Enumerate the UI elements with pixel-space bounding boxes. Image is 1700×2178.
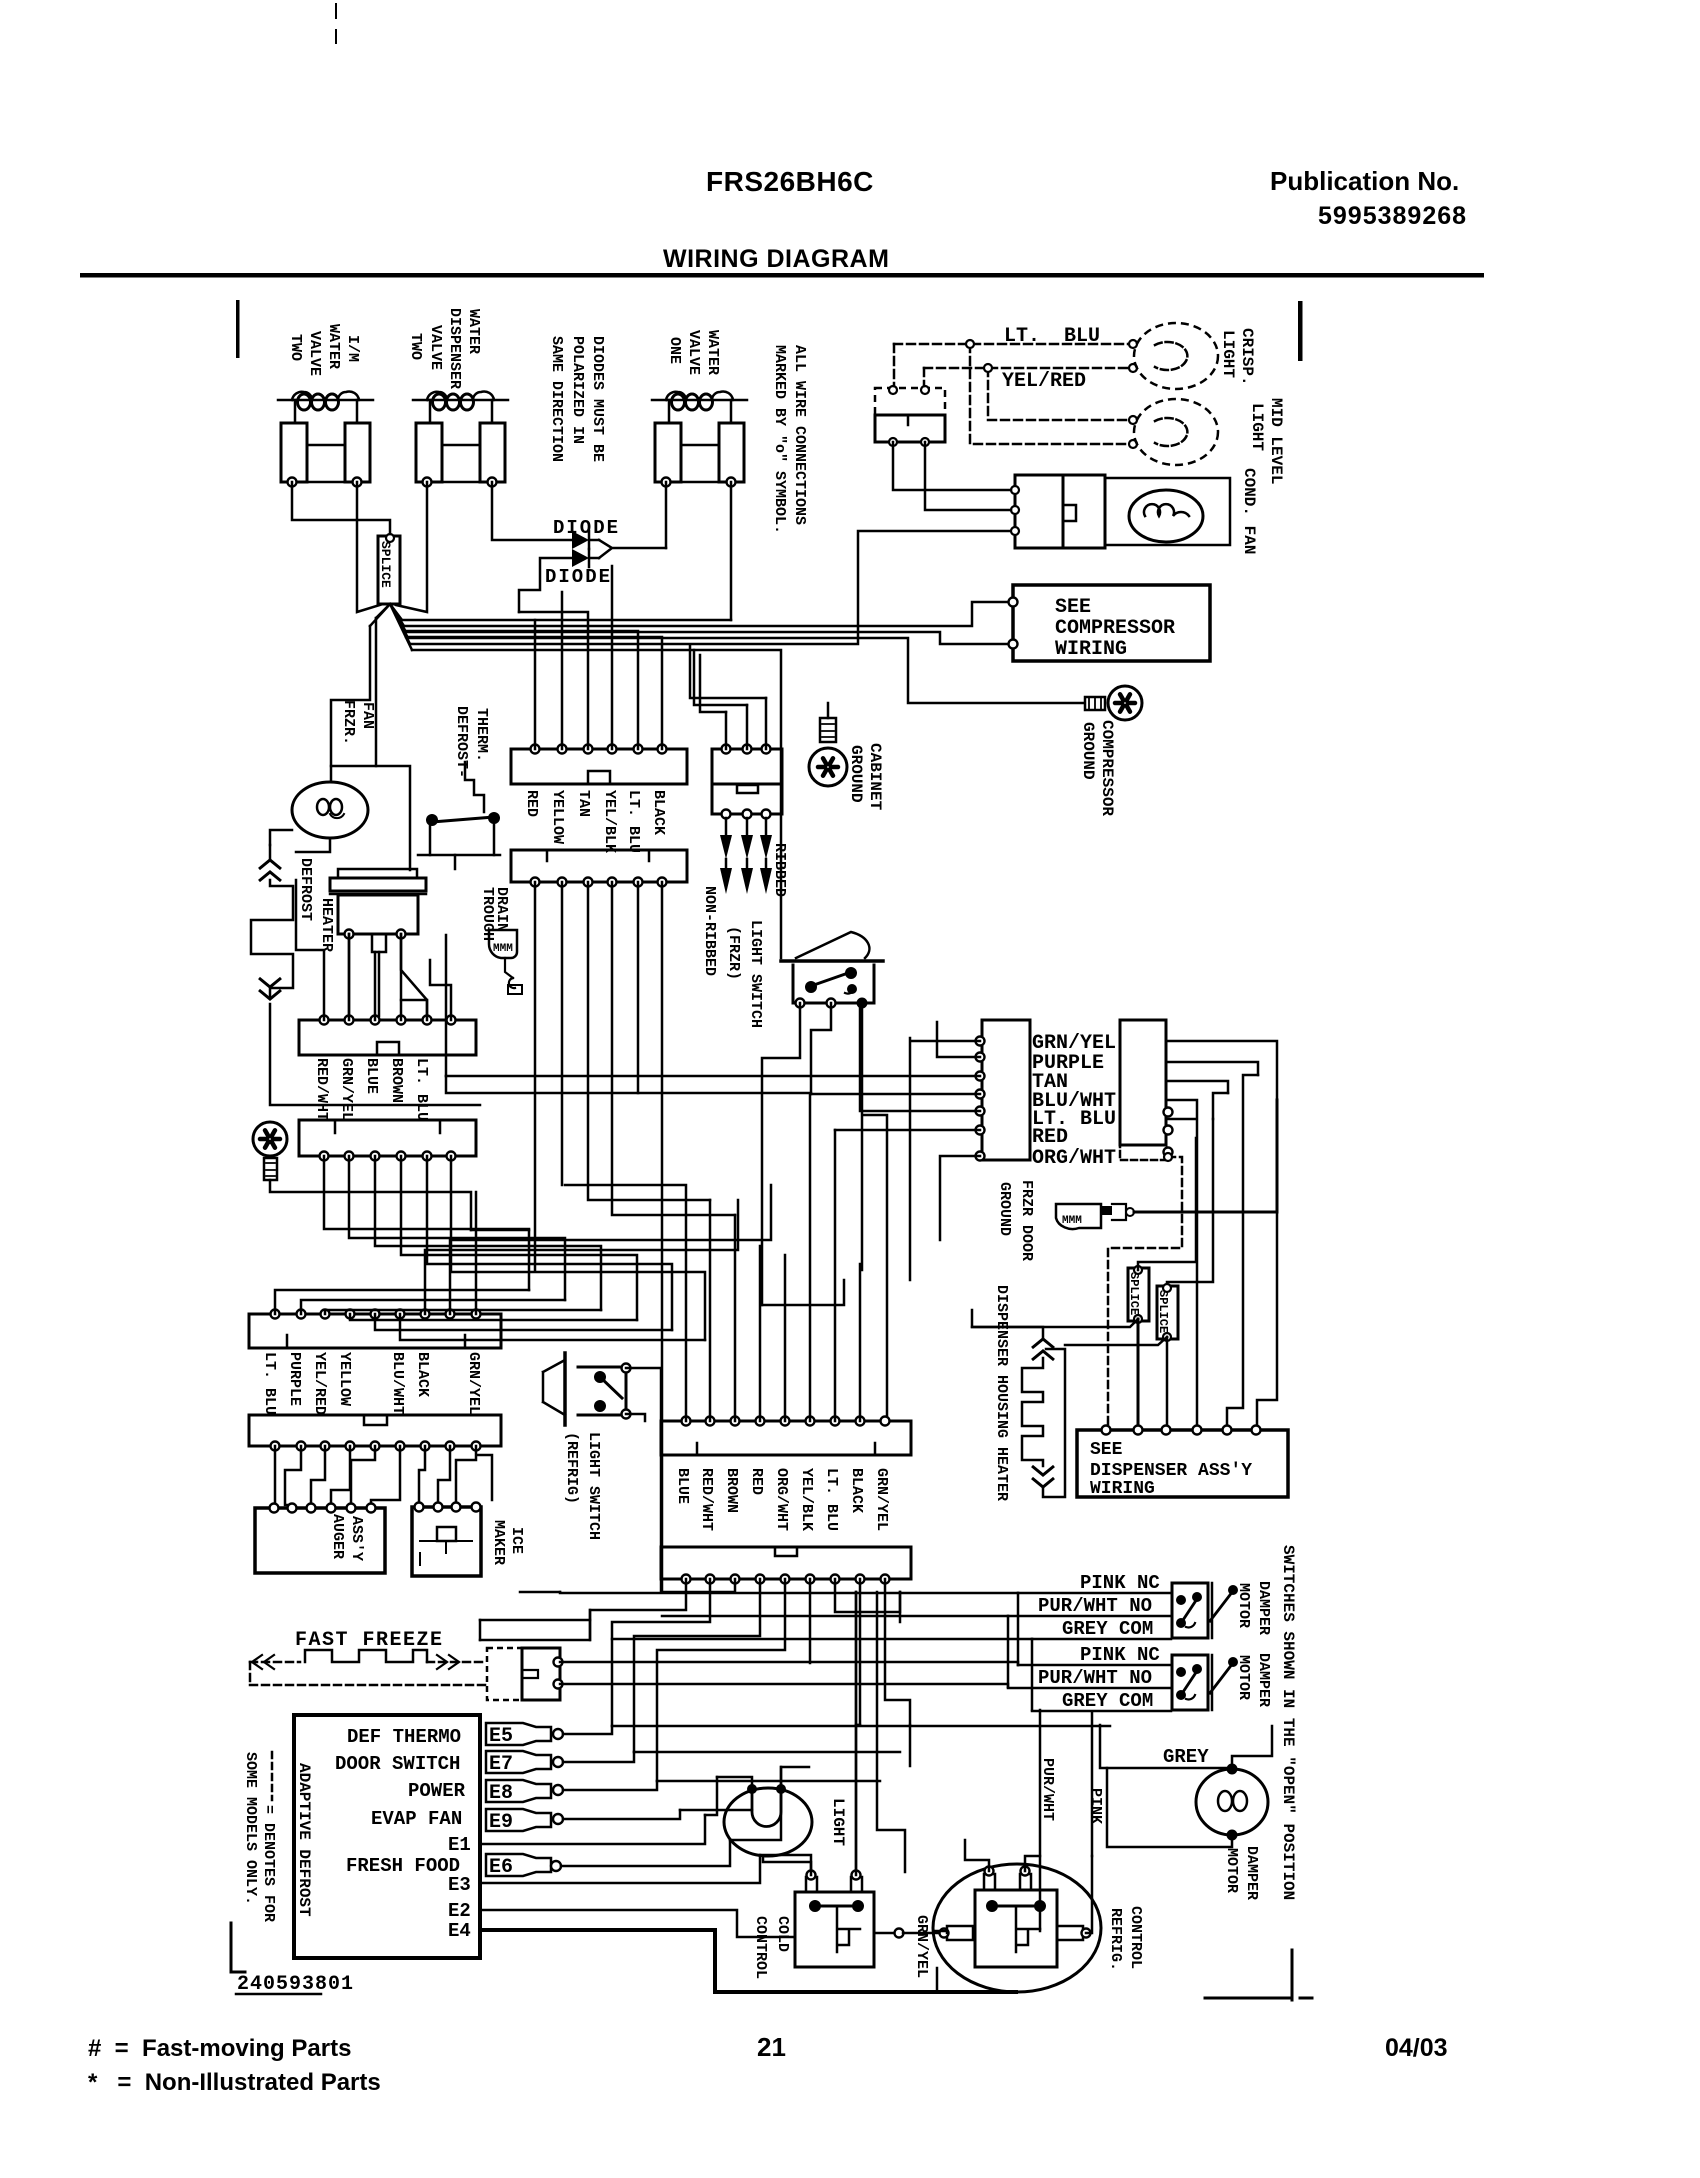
svg-text:MAKER: MAKER	[490, 1520, 507, 1565]
svg-text:YEL/RED: YEL/RED	[1002, 370, 1086, 393]
damper switch lower motor lead	[1210, 1663, 1233, 1693]
wire frzr door ground dashed	[1108, 1157, 1182, 1426]
wire crisp to mid dashed 1	[970, 344, 1131, 444]
compressor ground symbol	[1108, 686, 1142, 720]
svg-text:GROUND: GROUND	[847, 745, 865, 803]
svg-text:SPLICE: SPLICE	[1127, 1272, 1141, 1315]
svg-text:ALL WIRE CONNECTIONS: ALL WIRE CONNECTIONS	[791, 345, 808, 525]
svg-text:CONTROL: CONTROL	[752, 1916, 769, 1979]
refrig control ellipse	[933, 1864, 1101, 1992]
wire grn/yel vertical	[935, 1931, 947, 1933]
svg-text:COMPRESSOR: COMPRESSOR	[1055, 617, 1175, 640]
wire bundle line2 to compressor pin1	[404, 602, 1009, 626]
svg-text:RED: RED	[748, 1468, 765, 1495]
svg-text:DEFROST: DEFROST	[297, 858, 314, 921]
svg-text:WATER: WATER	[704, 330, 721, 375]
svg-text:ORG/WHT: ORG/WHT	[773, 1468, 790, 1531]
svg-text:DEFROST-: DEFROST-	[453, 706, 470, 778]
svg-text:E9: E9	[489, 1811, 513, 1834]
svg-text:E4: E4	[448, 1920, 471, 1942]
defrost timer assembly	[338, 869, 417, 878]
svg-text:DAMPER: DAMPER	[1243, 1846, 1260, 1900]
svg-text:MID LEVEL: MID LEVEL	[1267, 398, 1285, 484]
wire bundle line1	[402, 619, 731, 622]
svg-text:CABINET: CABINET	[866, 743, 884, 811]
svg-text:LIGHT: LIGHT	[829, 1798, 847, 1846]
wire maze center horizontals	[445, 935, 448, 1076]
wire splice S2 bottom to dispenser	[1137, 1319, 1140, 1426]
wires J1 pins up	[534, 620, 537, 749]
diode merge arrow	[599, 540, 666, 558]
wires cold control	[763, 1856, 811, 1875]
svg-text:BLACK: BLACK	[650, 790, 667, 835]
wires fast freeze out	[560, 1662, 1018, 1665]
wire maze center verticals	[855, 1592, 858, 1875]
cold control box	[795, 1892, 874, 1967]
svg-text:LT. BLU: LT. BLU	[261, 1352, 278, 1415]
svg-text:MOTOR: MOTOR	[1223, 1848, 1240, 1893]
wires J11 pins down maze	[480, 1579, 686, 1640]
connector J11	[661, 1547, 911, 1579]
wire door switch to fan connector 1	[893, 442, 1011, 490]
terminal E6	[486, 1854, 551, 1876]
wire bundle line6 long drop	[412, 650, 781, 958]
wire valveA left to splice top	[292, 482, 390, 534]
terminal E9	[486, 1809, 551, 1831]
wires J7 pins down maze	[324, 1156, 529, 1290]
svg-text:TAN: TAN	[575, 790, 592, 817]
svg-text:NON-RIBBED: NON-RIBBED	[701, 886, 718, 976]
wires E terminals	[563, 1726, 612, 1734]
svg-text:CRISP.: CRISP.	[1238, 328, 1256, 386]
footer corner mark right	[1205, 1950, 1312, 2000]
svg-text:5995389268: 5995389268	[1318, 202, 1467, 230]
auger assy box	[255, 1508, 385, 1573]
svg-text:240593801: 240593801	[237, 1973, 354, 1996]
connector J5 right	[1120, 1020, 1166, 1145]
svg-text:HEATER: HEATER	[318, 898, 335, 952]
damper switch upper motor lead	[1210, 1591, 1233, 1621]
damper switch upper wires	[1018, 1592, 1171, 1595]
defrost heater	[269, 845, 272, 860]
svg-text:FRZR DOOR: FRZR DOOR	[1018, 1180, 1035, 1261]
wires J2 pins down	[534, 882, 537, 1270]
svg-text:LT. BLU: LT. BLU	[625, 790, 642, 853]
svg-text:RED/WHT: RED/WHT	[698, 1468, 715, 1531]
ice maker box	[412, 1507, 481, 1576]
svg-text:SOME MODELS ONLY.: SOME MODELS ONLY.	[242, 1752, 259, 1905]
svg-text:BLU/WHT: BLU/WHT	[389, 1352, 406, 1415]
wire valveB left down	[396, 482, 427, 612]
wire valveA right to splice fan	[357, 482, 383, 612]
svg-text:YEL/BLK: YEL/BLK	[601, 790, 618, 853]
wires light switch refrig	[626, 1368, 661, 1592]
wire diode2 feed	[519, 558, 571, 612]
terminal E8	[486, 1780, 551, 1802]
svg-text:(REFRIG): (REFRIG)	[563, 1432, 580, 1504]
svg-text:COND. FAN: COND. FAN	[1240, 468, 1258, 554]
svg-text:POLARIZED IN: POLARIZED IN	[569, 336, 586, 444]
svg-text:GREY COM: GREY COM	[1062, 1690, 1153, 1712]
connector J8	[249, 1314, 501, 1348]
wire crisp to mid dashed 2	[988, 368, 1131, 420]
crisp light bulb	[1134, 323, 1218, 389]
svg-text:ADAPTIVE DEFROST: ADAPTIVE DEFROST	[295, 1763, 313, 1917]
svg-text:WATER: WATER	[465, 309, 482, 354]
damper feed verticals	[1008, 1593, 1032, 1710]
svg-text:VALVE: VALVE	[306, 331, 323, 376]
svg-text:VALVE: VALVE	[685, 330, 702, 375]
cond fan frame	[1105, 478, 1230, 545]
svg-text:I/M: I/M	[344, 335, 361, 362]
wire splice left drop B	[331, 626, 370, 766]
wires timer to connector	[348, 934, 351, 1016]
svg-text:GRN/YEL: GRN/YEL	[913, 1915, 930, 1978]
svg-text:WIRING DIAGRAM: WIRING DIAGRAM	[663, 245, 889, 273]
legend DENOTES FOR SOME MODELS ONLY	[271, 1752, 274, 1800]
freezer door switch body	[875, 415, 945, 442]
svg-text:WIRING: WIRING	[1090, 1479, 1155, 1499]
svg-text:TWO: TWO	[407, 333, 424, 360]
wire heater top to fan	[270, 830, 292, 845]
svg-text:ICE: ICE	[508, 1527, 525, 1554]
fast freeze dashed resistor	[250, 1661, 300, 1664]
connector J7	[299, 1120, 476, 1156]
svg-text:LT. BLU: LT. BLU	[823, 1468, 840, 1531]
wire bundle line4 ground bus	[408, 638, 1083, 703]
wires J10 pins up maze	[565, 1185, 686, 1421]
connector J6	[299, 1020, 476, 1055]
adaptive defrost board box	[294, 1715, 480, 1958]
fast freeze connector	[487, 1648, 522, 1700]
svg-text:FRS26BH6C: FRS26BH6C	[706, 166, 874, 197]
svg-text:GRN/YEL: GRN/YEL	[873, 1468, 890, 1531]
svg-text:LIGHT: LIGHT	[1248, 403, 1266, 451]
svg-text:FRZR.: FRZR.	[340, 700, 357, 745]
diode D2	[572, 549, 589, 567]
svg-text:VALVE: VALVE	[427, 325, 444, 370]
svg-text:E7: E7	[489, 1753, 513, 1776]
svg-text:YELLOW: YELLOW	[336, 1352, 353, 1406]
freezer fan motor	[292, 782, 368, 838]
wire splice S2 top	[1138, 1138, 1196, 1270]
svg-text:BLUE: BLUE	[674, 1468, 691, 1504]
svg-text:BROWN: BROWN	[723, 1468, 740, 1513]
wires J8 pins up	[275, 1290, 529, 1314]
svg-text:MOTOR: MOTOR	[1235, 1655, 1252, 1700]
svg-text:SEE: SEE	[1090, 1440, 1123, 1460]
svg-text:SPLICE: SPLICE	[378, 541, 393, 588]
connector J9	[249, 1415, 501, 1446]
svg-text:SEE: SEE	[1055, 596, 1091, 619]
wire door switch to fan connector 2	[925, 442, 1011, 510]
defrost thermostat switch	[426, 814, 438, 826]
svg-text:PINK: PINK	[1087, 1788, 1104, 1824]
see dispenser assy wiring box	[1077, 1430, 1288, 1497]
svg-text:TWO: TWO	[287, 334, 304, 361]
svg-text:DIODE: DIODE	[545, 566, 612, 588]
damper switch lower body	[1172, 1655, 1208, 1710]
svg-text:PINK NC: PINK NC	[1080, 1644, 1160, 1666]
svg-text:ONE: ONE	[666, 337, 683, 364]
svg-text:RIBBED: RIBBED	[771, 843, 788, 897]
svg-text:YELLOW: YELLOW	[549, 790, 566, 844]
wire grey	[1100, 1725, 1232, 1768]
svg-text:FRESH FOOD: FRESH FOOD	[346, 1855, 460, 1877]
svg-text:GROUND: GROUND	[1079, 722, 1097, 780]
wire maze bottom left	[480, 1610, 590, 1640]
svg-text:LIGHT SWITCH: LIGHT SWITCH	[585, 1432, 602, 1540]
svg-text:04/03: 04/03	[1385, 2034, 1448, 2062]
right border tick	[1298, 301, 1303, 361]
svg-text:PURPLE: PURPLE	[286, 1352, 303, 1406]
svg-text:E6: E6	[489, 1856, 513, 1879]
svg-text:GRN/YEL: GRN/YEL	[338, 1058, 355, 1121]
svg-text:THERM.: THERM.	[473, 708, 490, 762]
svg-text:DAMPER: DAMPER	[1255, 1653, 1272, 1707]
svg-text:EVAP FAN: EVAP FAN	[371, 1808, 462, 1830]
svg-text:WATER: WATER	[325, 324, 342, 369]
wire YEL/RED dashed	[924, 367, 1131, 370]
wire splice left drop A	[375, 618, 378, 766]
svg-text:DISPENSER ASS'Y: DISPENSER ASS'Y	[1090, 1461, 1252, 1481]
svg-text:FAN: FAN	[359, 702, 376, 729]
defrost thermostat staircase	[465, 762, 484, 812]
wires pur/wht pink down	[1040, 1710, 1092, 1931]
valve WATER VALVE ONE	[652, 399, 747, 402]
svg-text:= DENOTES FOR: = DENOTES FOR	[260, 1805, 277, 1922]
svg-text:PUR/WHT NO: PUR/WHT NO	[1038, 1595, 1152, 1617]
wires refrig control top	[965, 1840, 1040, 1871]
svg-text:POWER: POWER	[408, 1780, 466, 1802]
svg-text:GREY: GREY	[1163, 1746, 1209, 1768]
svg-text:BLACK: BLACK	[414, 1352, 431, 1397]
svg-text:DIODES MUST BE: DIODES MUST BE	[589, 336, 606, 462]
svg-text:BLACK: BLACK	[848, 1468, 865, 1513]
wires J3 pins up	[726, 698, 766, 749]
damper motor	[1196, 1769, 1268, 1835]
wire cabinet ground drop	[827, 703, 830, 718]
wires J5 to right margin staircase	[1166, 1041, 1277, 1426]
svg-text:SPLICE: SPLICE	[1156, 1290, 1170, 1333]
wires refrig light	[717, 1767, 809, 1789]
svg-text:DAMPER: DAMPER	[1255, 1581, 1272, 1635]
svg-text:E8: E8	[489, 1782, 513, 1805]
svg-text:DEF THERMO: DEF THERMO	[347, 1726, 461, 1748]
left border tick	[236, 300, 240, 358]
svg-text:DOOR SWITCH: DOOR SWITCH	[335, 1753, 460, 1775]
svg-text:LT. BLU: LT. BLU	[1004, 325, 1100, 348]
light switch refrig	[563, 1353, 567, 1425]
wire fan loop top	[331, 766, 410, 870]
wire bundle line5 to fan connector pin3	[410, 531, 1013, 644]
svg-text:PINK NC: PINK NC	[1080, 1572, 1160, 1594]
svg-text:GROUND: GROUND	[996, 1182, 1013, 1236]
splice S3	[1157, 1286, 1178, 1339]
damper switch upper body	[1172, 1583, 1208, 1638]
cabinet ground symbol	[809, 748, 847, 786]
wire frzr door ground to right bus	[1134, 1100, 1277, 1212]
svg-text:FAST FREEZE: FAST FREEZE	[295, 1629, 444, 1652]
svg-text:COLD: COLD	[774, 1916, 791, 1952]
svg-text:MARKED BY "o" SYMBOL.: MARKED BY "o" SYMBOL.	[771, 345, 788, 534]
diode D1	[572, 531, 589, 549]
svg-text:AUGER: AUGER	[329, 1514, 346, 1559]
wire splice S3 left lead	[1065, 1337, 1167, 1345]
connector J1 (RED..BLACK)	[511, 749, 687, 784]
svg-text:ORG/WHT: ORG/WHT	[1032, 1147, 1116, 1170]
svg-text:PUR/WHT NO: PUR/WHT NO	[1038, 1667, 1152, 1689]
splice S1 box	[378, 536, 400, 604]
wires damper motor	[1232, 1726, 1272, 1769]
connector J2	[511, 850, 687, 882]
svg-text:BROWN: BROWN	[388, 1058, 405, 1103]
wire valveC right down to bundle	[730, 482, 733, 620]
light switch FRZR	[781, 959, 883, 963]
svg-text:LIGHT SWITCH: LIGHT SWITCH	[747, 920, 764, 1028]
wire valveC left to diode output	[665, 482, 668, 548]
dispenser housing heater	[972, 1327, 1043, 1338]
svg-text:# = Fast-moving Parts: # = Fast-moving Parts	[88, 2035, 351, 2062]
svg-text:MMM: MMM	[1062, 1215, 1082, 1227]
svg-text:RED: RED	[523, 790, 540, 817]
svg-text:(FRZR): (FRZR)	[725, 926, 742, 980]
splice S2	[1128, 1268, 1149, 1321]
svg-text:DISPENSER HOUSING HEATER: DISPENSER HOUSING HEATER	[993, 1285, 1010, 1501]
terminal E5	[486, 1723, 551, 1745]
svg-text:MOTOR: MOTOR	[1235, 1583, 1252, 1628]
ribbed wire arrows	[725, 818, 728, 835]
svg-text:CONTROL: CONTROL	[1127, 1906, 1144, 1969]
refrig light bulb	[724, 1788, 812, 1856]
svg-text:COMPRESSOR: COMPRESSOR	[1098, 720, 1116, 816]
splice fan lines	[370, 604, 412, 650]
title rule	[80, 273, 1484, 278]
svg-text:DISPENSER: DISPENSER	[446, 308, 463, 389]
svg-text:E2: E2	[448, 1900, 471, 1922]
svg-text:E1: E1	[448, 1834, 471, 1856]
wires light switch frzr down	[762, 1003, 800, 1305]
valve I/M WATER VALVE TWO	[278, 399, 373, 402]
svg-text:E3: E3	[448, 1874, 471, 1896]
svg-text:GRN/YEL: GRN/YEL	[465, 1352, 482, 1415]
wires J9 to auger/ice maker	[274, 1446, 277, 1508]
cond fan connector	[1015, 475, 1063, 548]
damper switch lower wires	[1018, 1664, 1171, 1667]
frzr door trough ground symbol	[1056, 1204, 1101, 1229]
svg-text:Publication No.: Publication No.	[1270, 166, 1459, 196]
svg-text:E5: E5	[489, 1725, 513, 1748]
freezer door switch dashed box	[875, 388, 945, 415]
terminal E7	[486, 1751, 551, 1773]
drain trough symbol	[489, 930, 517, 958]
svg-text:GREY COM: GREY COM	[1062, 1618, 1153, 1640]
svg-text:REFRIG.: REFRIG.	[1107, 1908, 1124, 1971]
refrig control side terminals	[947, 1926, 973, 1940]
refrig control body	[975, 1890, 1057, 1967]
wire LT. BLU dashed	[894, 343, 1131, 346]
svg-text:WIRING: WIRING	[1055, 638, 1127, 661]
corner mark + part number	[231, 1923, 245, 1972]
svg-text:* = Non-Illustrated Parts: * = Non-Illustrated Parts	[88, 2069, 381, 2096]
svg-text:LIGHT: LIGHT	[1219, 330, 1237, 378]
wire valveB right to diode1	[492, 482, 571, 540]
wire fan bottom	[296, 838, 330, 852]
svg-text:DIODE: DIODE	[553, 517, 620, 539]
cond fan motor	[1129, 490, 1203, 542]
wire cold control right to refrig	[874, 1932, 896, 1935]
top stray mark	[335, 4, 337, 43]
svg-text:21: 21	[757, 2032, 786, 2062]
svg-text:BLUE: BLUE	[363, 1058, 380, 1094]
wires J6 pins up	[296, 880, 324, 1020]
svg-text:ASS'Y: ASS'Y	[348, 1516, 365, 1561]
mid level light bulb	[1134, 399, 1218, 465]
wire bundle line3 to compressor pin2	[406, 632, 1009, 644]
connector J4 left (GRN/YEL..ORG/WHT)	[982, 1020, 1030, 1160]
connector J3 ribbed/non-ribbed	[712, 749, 782, 784]
svg-text:PUR/WHT: PUR/WHT	[1039, 1758, 1056, 1821]
svg-text:TROUGH: TROUGH	[479, 887, 496, 941]
wires J4 feeds	[910, 1038, 980, 1280]
svg-text:YEL/BLK: YEL/BLK	[798, 1468, 815, 1531]
svg-text:SAME DIRECTION: SAME DIRECTION	[548, 336, 565, 462]
wire frzr ground down	[270, 1180, 471, 1230]
svg-text:RED: RED	[1032, 1126, 1068, 1149]
svg-text:RED/WHT: RED/WHT	[313, 1058, 330, 1121]
wire splice S3 bottom to dispenser	[1166, 1337, 1169, 1426]
frzr ground symbol at J7	[253, 1122, 287, 1156]
svg-text:SWITCHES SHOWN IN THE "OPEN" P: SWITCHES SHOWN IN THE "OPEN" POSITION	[1279, 1545, 1297, 1900]
connector J10	[661, 1421, 911, 1455]
see compressor wiring box	[1013, 585, 1210, 661]
svg-text:LT. BLU: LT. BLU	[413, 1058, 430, 1121]
svg-text:YEL/RED: YEL/RED	[311, 1352, 328, 1415]
valve WATER DISPENSER VALVE TWO	[413, 399, 508, 402]
svg-text:MMM: MMM	[493, 943, 513, 955]
wire splice S2 left lead	[972, 1310, 1138, 1327]
